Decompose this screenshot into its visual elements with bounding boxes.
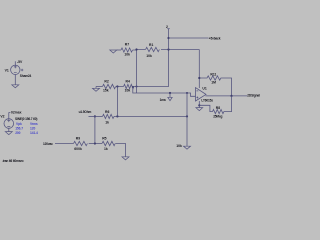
svg-text:R5: R5 [102,136,106,140]
svg-text:10k: 10k [176,144,182,148]
wire R9 to node [89,143,102,145]
wire R5 to corner [116,144,126,157]
junction bottom divider tap [94,142,96,144]
svg-text:2DSignal: 2DSignal [247,94,260,98]
junction bottom pin [198,104,200,106]
ground (R7 chain) [110,50,117,53]
svg-text:02max: 02max [11,110,22,114]
svg-text:R8: R8 [216,106,220,110]
svg-text:V1: V1 [5,69,9,73]
resistor R7 [121,48,133,52]
svg-text:25Meg: 25Meg [213,114,222,118]
svg-text:141.4: 141.4 [30,131,38,135]
svg-text:R7: R7 [125,43,129,47]
resistor R11 [199,76,231,96]
svg-text:10k: 10k [124,52,130,56]
svg-text:SINE(0 156.7 60): SINE(0 156.7 60) [15,117,37,121]
comment table blue [15,122,38,135]
wire divider tap up [94,116,96,143]
wire rect left vertical [136,50,138,94]
wire R7 to rail [133,49,137,52]
junction rect left bottom [136,86,138,88]
ground (V2) [5,132,12,135]
wire R4 to rect corner [133,50,169,87]
svg-text:LT6015s: LT6015s [201,98,213,102]
op-amp U1 [196,88,207,101]
svg-text:600k: 600k [74,147,82,151]
svg-text:R2: R2 [104,80,108,84]
wire 120vac to R9 [55,143,74,145]
resistor R6 [103,114,115,118]
wire junction down to mid wire [116,87,118,117]
junction +5vback [167,37,169,39]
svg-text:15k: 15k [103,89,109,93]
wire flag vertical [168,29,170,50]
wire opamp output [206,95,248,97]
wire R2 to R4 [116,86,124,88]
resistor R5 [102,141,115,145]
svg-text:1M: 1M [211,80,216,84]
svg-text:2: 2 [166,25,168,29]
wire +5vback [169,37,209,39]
svg-text:10k: 10k [125,89,131,93]
V2 top lead wire [8,112,10,118]
svg-text:V2: V2 [0,115,4,119]
svg-text:Sham24: Sham24 [20,74,32,78]
V1 plus mark [21,69,23,71]
svg-text:R4: R4 [126,80,130,84]
voltage source V2 [4,119,14,129]
ground (R2 chain) [93,87,100,92]
net flag 2 top [167,28,170,30]
wire top rail [137,49,200,51]
junction 1ma tap [169,92,171,94]
wire gnd to R2 [96,86,103,88]
svg-text:156.7: 156.7 [15,127,23,131]
svg-text:1ma: 1ma [160,98,166,102]
wire mid left [89,115,103,117]
svg-text:1k: 1k [104,147,108,151]
svg-text:R6: R6 [105,110,109,114]
net flag 02max [9,111,11,113]
svg-text:-5V: -5V [17,60,23,64]
junction output [230,95,232,97]
ground (bottom chain) [122,157,129,160]
junction mid wire right [186,115,188,117]
svg-text:R9: R9 [76,136,80,140]
junction ground branch [186,92,188,94]
wire plus input ground vertical [186,93,188,146]
wire input line [133,87,196,97]
wire opamp V+ feed [198,50,200,89]
ground (V1) [12,85,19,88]
junction R11 left [198,77,200,79]
resistor R4 [124,84,134,88]
svg-text:Vpk: Vpk [16,122,22,126]
resistor R8 [213,96,232,114]
svg-text:200: 200 [15,131,20,135]
svg-text:1k: 1k [105,120,109,124]
ground (op-amp) [196,108,203,111]
net flag 1ma [169,93,171,97]
junction R2R4 [116,85,118,87]
junction top rail left [135,48,137,50]
V1 bottom lead wire [14,75,16,85]
svg-text:u1.5Ohm: u1.5Ohm [79,110,92,114]
ground (input vertical) [184,146,191,149]
wire R6 to right vertical [114,115,187,117]
junction input branch [132,86,134,88]
svg-text:U1: U1 [202,87,206,91]
svg-text:R11: R11 [210,72,216,76]
svg-text:120vac: 120vac [43,142,53,146]
svg-text:R1: R1 [149,43,153,47]
junction mid wire left [94,115,96,117]
wire ground to R7 [117,49,121,51]
resistor R9 [74,141,88,145]
resistor R1 [146,47,160,51]
V2 bottom lead wire [8,128,10,131]
voltage source V1 [11,65,20,74]
svg-text:120: 120 [30,127,35,131]
V1 top lead wire [14,61,16,65]
svg-text:10k: 10k [146,54,152,58]
svg-text:.tran 66 60msec: .tran 66 60msec [2,159,24,163]
svg-text:Vrms: Vrms [30,122,38,126]
svg-text:+5vback: +5vback [209,37,221,41]
junction top rail right [167,48,169,50]
resistor R2 [103,84,116,88]
junction mid wire center [116,115,118,117]
wire feedback lower [199,105,212,111]
wire opamp bottom pin [198,101,200,107]
